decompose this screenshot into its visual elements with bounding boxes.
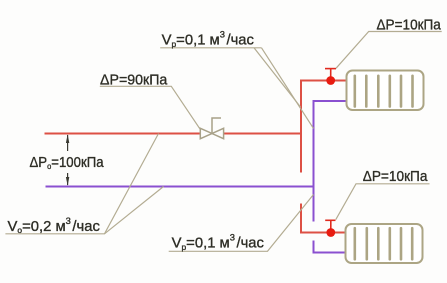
radiator 1 (top right) body [347, 71, 424, 111]
label Vo=0,2 m3/h [8, 216, 101, 235]
label dPo=100kPa [30, 153, 104, 171]
svg-text:ΔP=10кПа: ΔP=10кПа [377, 17, 441, 34]
svg-text:ΔP=10кПа: ΔP=10кПа [363, 168, 428, 185]
leader: top dP=10kPa to thermostatic valve 1 [336, 32, 442, 69]
pressure-drop dimension line between mains [66, 134, 69, 186]
label bottom dP=10kPa [363, 168, 428, 185]
supply riser (red) lower segment [301, 204, 346, 233]
thermostatic valve on radiator 2 (red dot + T) [325, 220, 335, 237]
radiator 2 fins [355, 228, 412, 259]
thermostatic valve on radiator 1 (red dot + T) [325, 69, 336, 85]
balancing valve (bowtie) on supply main [200, 118, 223, 139]
leader: bottom dP=10kPa to thermostatic valve 2 [336, 184, 430, 220]
return riser (purple) upper segment [314, 101, 347, 222]
label bottom Vp=0,1 m3/h [172, 233, 265, 252]
leader: dP=90kPa to balancing valve [100, 86, 200, 129]
supply pipe main (red) left segment [45, 133, 201, 135]
leader: top Vp to riser branches [160, 48, 313, 129]
radiator 1 fins [355, 76, 413, 107]
supply riser (red) upper segment [301, 81, 347, 173]
svg-text:Vр=0,1 м3/час: Vр=0,1 м3/час [172, 233, 265, 252]
svg-text:ΔPо=100кПа: ΔPо=100кПа [30, 153, 104, 171]
return pipe main (purple) [46, 186, 314, 188]
supply pipe main (red) right segment [224, 133, 301, 135]
svg-text:Vр=0,1 м3/час: Vр=0,1 м3/час [162, 30, 255, 49]
leader: Vo to both mains [5, 134, 163, 234]
return riser (purple) lower segment [314, 241, 346, 253]
label top dP=10kPa [377, 17, 441, 34]
label top Vp=0,1 m3/h [162, 30, 255, 49]
svg-text:ΔP=90кПа: ΔP=90кПа [100, 72, 168, 88]
radiator 2 (bottom right) body [346, 224, 423, 263]
svg-text:Vо=0,2 м3/час: Vо=0,2 м3/час [8, 216, 101, 235]
leader: bottom Vp to return riser [169, 195, 314, 252]
label dP=90kPa [100, 72, 168, 88]
